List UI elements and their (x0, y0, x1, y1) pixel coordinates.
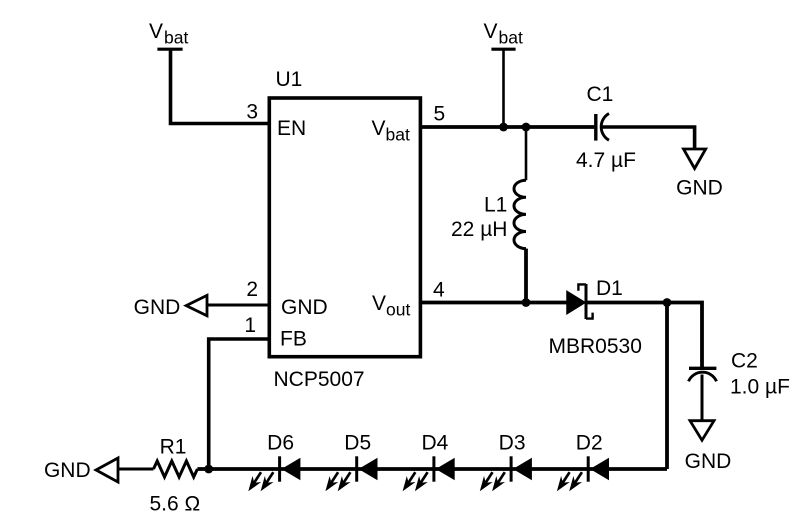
svg-text:out: out (386, 300, 410, 320)
svg-text:5: 5 (434, 103, 446, 126)
svg-text:4.7 µF: 4.7 µF (576, 149, 636, 172)
svg-text:V: V (372, 117, 386, 140)
LED D5 (325, 432, 377, 492)
ground symbol (C1) (676, 149, 723, 200)
wire V_bat(middle) drop to pin5 net (502, 49, 505, 127)
svg-text:GND: GND (44, 459, 91, 482)
junction node (522, 123, 531, 132)
svg-text:V: V (372, 292, 386, 315)
capacitor C1 (576, 83, 636, 172)
wire pin 5 V_bat to C1 (420, 125, 594, 129)
wire ground to R1 (118, 468, 154, 471)
ground symbol (R1) (44, 458, 118, 482)
svg-text:C1: C1 (587, 83, 614, 106)
svg-text:GND: GND (134, 296, 181, 319)
power symbol V_bat (middle) (484, 20, 523, 49)
svg-text:GND: GND (676, 177, 723, 200)
svg-text:FB: FB (280, 328, 307, 351)
svg-text:NCP5007: NCP5007 (274, 368, 365, 391)
junction node (522, 298, 531, 307)
wire LED string (197, 467, 667, 471)
wire output node down to LED string (665, 303, 669, 470)
LED D4 (403, 432, 455, 492)
wire V_bat(left) to pin 3 EN (171, 49, 270, 123)
svg-text:D1: D1 (596, 277, 623, 300)
svg-text:4: 4 (433, 279, 445, 302)
svg-text:bat: bat (164, 28, 188, 48)
svg-text:D5: D5 (344, 432, 371, 455)
svg-text:GND: GND (281, 296, 328, 319)
wire pin 2 GND (207, 304, 269, 307)
junction node (663, 298, 672, 307)
svg-text:MBR0530: MBR0530 (549, 335, 642, 358)
inductor L1 22uH (451, 127, 526, 303)
svg-text:3: 3 (246, 101, 258, 124)
wire pin 1 FB to feedback node (209, 339, 269, 469)
svg-text:1: 1 (244, 314, 256, 337)
svg-text:U1: U1 (276, 68, 303, 91)
svg-text:2: 2 (246, 278, 258, 301)
capacitor C2 (689, 350, 790, 399)
svg-text:GND: GND (685, 450, 732, 473)
svg-text:V: V (149, 20, 163, 43)
svg-text:22 µH: 22 µH (451, 218, 507, 241)
svg-text:D3: D3 (499, 432, 526, 455)
LED D3 (480, 432, 532, 492)
resistor R1 5.6 ohm (150, 436, 201, 516)
ground symbol (pin 2) (134, 295, 207, 319)
svg-text:D6: D6 (267, 432, 294, 455)
IC U1 outline (269, 98, 420, 357)
svg-text:V: V (484, 20, 498, 43)
ground symbol (C2) (685, 421, 732, 473)
svg-text:bat: bat (386, 125, 410, 145)
junction node (499, 123, 508, 132)
LED D2 (557, 432, 609, 492)
svg-text:L1: L1 (484, 194, 507, 217)
svg-text:EN: EN (277, 117, 306, 140)
wire C2 to ground (701, 375, 704, 422)
LED D6 (248, 432, 300, 492)
svg-text:D2: D2 (576, 432, 603, 455)
wire C1 to ground (603, 127, 695, 149)
svg-text:D4: D4 (421, 432, 448, 455)
svg-text:bat: bat (499, 28, 523, 48)
svg-text:1.0 µF: 1.0 µF (730, 376, 790, 399)
svg-text:5.6 Ω: 5.6 Ω (150, 493, 201, 516)
power symbol V_bat (left) (149, 20, 188, 49)
wire pin 4 V_out to D1 (420, 301, 568, 305)
svg-text:C2: C2 (731, 350, 758, 373)
svg-text:R1: R1 (160, 436, 187, 459)
wire D1 cathode to C2 (586, 303, 702, 369)
junction node (204, 465, 213, 474)
schottky diode D1 MBR0530 (549, 277, 642, 358)
